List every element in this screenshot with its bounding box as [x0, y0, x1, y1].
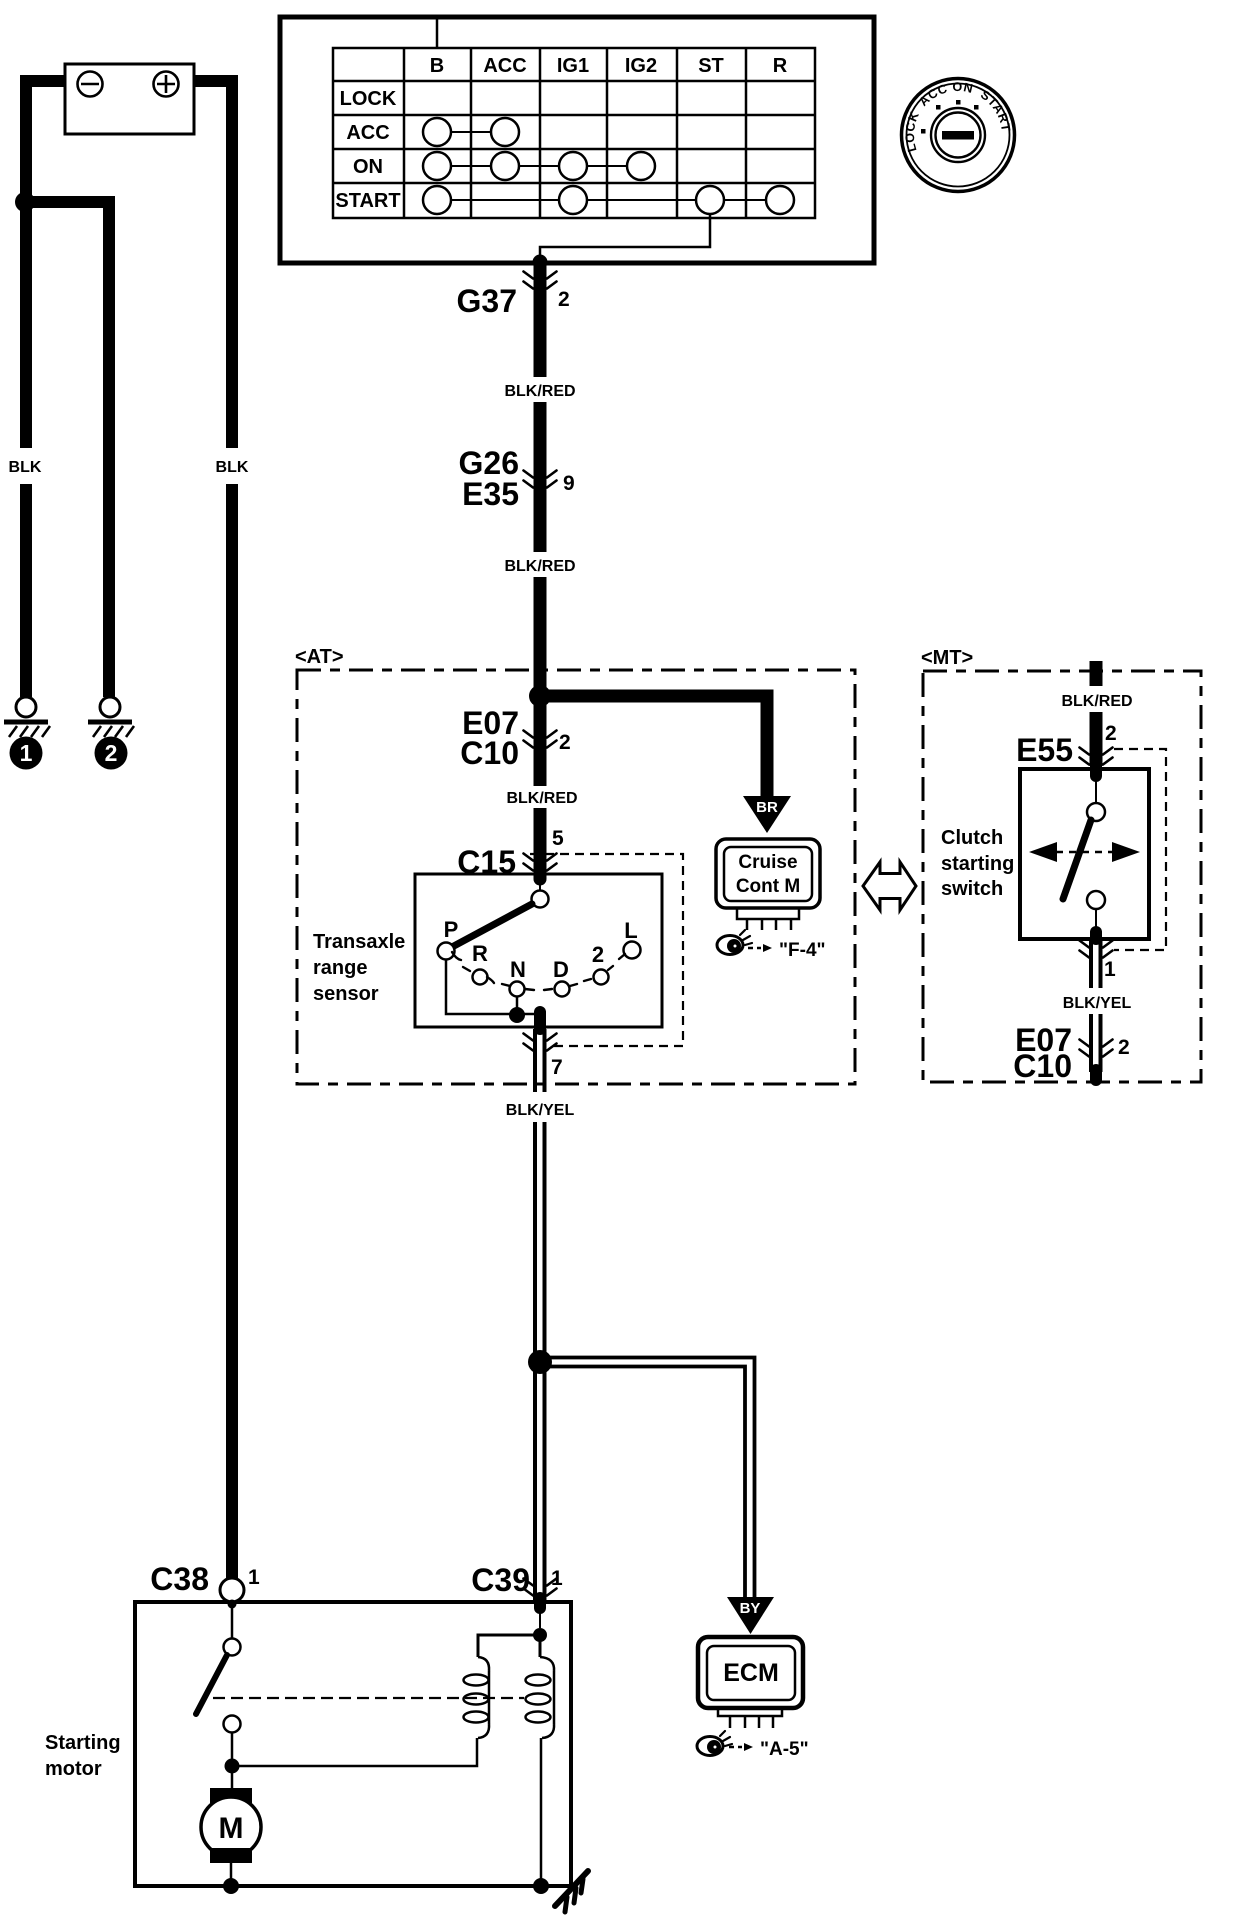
svg-text:"A-5": "A-5": [760, 1739, 809, 1760]
branch double wire to ECM: [542, 1358, 755, 1598]
svg-text:D: D: [553, 957, 569, 982]
ECM box: [698, 1637, 803, 1708]
ECM pins: [730, 1716, 773, 1728]
svg-text:2: 2: [559, 731, 571, 754]
hold coil lead to ground rail: [540, 1738, 543, 1884]
link to coil return: [232, 1738, 477, 1766]
contact D: [555, 982, 570, 997]
feed line into table: [436, 19, 439, 48]
wire from N to common node: [516, 997, 519, 1014]
MT feed wire: [1090, 661, 1103, 686]
ground 2 numeral: [95, 737, 128, 770]
connector C39: [524, 1579, 557, 1596]
svg-text:2: 2: [558, 288, 570, 311]
AT dashed box: [297, 670, 855, 1084]
svg-text:L: L: [624, 918, 637, 943]
C38 contact dot: [228, 1600, 237, 1609]
transaxle range sensor box: [415, 874, 662, 1027]
wire ignition output segment 1: [534, 262, 547, 377]
contact 2: [594, 970, 609, 985]
svg-text:BLK/RED: BLK/RED: [504, 383, 575, 400]
svg-text:P: P: [444, 917, 459, 942]
svg-text:R: R: [472, 941, 488, 966]
svg-text:Clutch: Clutch: [941, 827, 1003, 849]
upper contact: [1087, 803, 1105, 821]
branch wire to cruise control: [540, 696, 767, 797]
svg-text:BR: BR: [756, 799, 778, 816]
contact N: [510, 982, 525, 997]
label transaxle range sensor: [313, 931, 405, 1005]
motor M: [201, 1788, 261, 1863]
svg-text:Cruise: Cruise: [738, 852, 797, 873]
svg-text:5: 5: [552, 827, 564, 850]
wire segment 2: [534, 402, 547, 552]
relay switch blade: [196, 1655, 227, 1714]
junction dot above motor: [225, 1759, 240, 1774]
svg-text:<MT>: <MT>: [921, 647, 973, 669]
junction dot sensor output: [509, 1007, 525, 1023]
wire segment 4: [534, 808, 547, 874]
svg-text:ACC: ACC: [483, 55, 526, 77]
table row headers: [335, 88, 400, 212]
svg-text:BLK: BLK: [216, 459, 249, 476]
wire battery negative to ground 1: [26, 81, 66, 448]
contact L: [624, 942, 641, 959]
wire tip at sensor: [534, 872, 547, 877]
svg-text:2: 2: [592, 942, 604, 967]
svg-text:Transaxle: Transaxle: [313, 931, 405, 953]
contact R: [473, 970, 488, 985]
junction dot on main wire: [529, 685, 551, 707]
svg-text:ECM: ECM: [723, 1659, 779, 1687]
clutch starting switch box: [1020, 769, 1149, 939]
wire bulge at ignition box exit: [533, 255, 548, 270]
wire tip out of switch: [1090, 932, 1102, 939]
svg-text:E35: E35: [462, 476, 519, 512]
junction dot to ECM branch: [528, 1350, 552, 1374]
contact P: [438, 943, 455, 960]
ignition switch box: [280, 17, 874, 263]
coil junction dot: [533, 1628, 547, 1642]
pull-in coil: [464, 1657, 490, 1738]
svg-text:N: N: [510, 957, 526, 982]
lead from lower contact: [231, 1733, 234, 1766]
connector E07/C10 (MT): [1080, 1040, 1113, 1057]
cruise reference dashed arrow: [748, 947, 761, 950]
svg-text:2: 2: [105, 740, 118, 766]
svg-text:2: 2: [1105, 722, 1117, 745]
starting motor box: [135, 1602, 571, 1886]
ground 1 numeral: [10, 737, 43, 770]
junction dot bottom left: [223, 1878, 239, 1894]
svg-text:G37: G37: [457, 283, 517, 319]
label starting motor: [45, 1732, 121, 1780]
ground 1: [4, 697, 50, 737]
label clutch starting switch: [941, 827, 1014, 900]
ground 2: [88, 697, 134, 737]
svg-text:sensor: sensor: [313, 983, 379, 1005]
connector G26/E35: [524, 471, 557, 488]
C39 wire tip into box: [534, 1598, 546, 1608]
lead motor to ground rail: [230, 1863, 233, 1884]
svg-text:Cont M: Cont M: [736, 876, 800, 897]
MT wire segment 2: [1090, 712, 1103, 766]
MT lower double wire lower part: [1091, 1014, 1101, 1072]
svg-text:1: 1: [248, 1566, 260, 1589]
ECM reference dashed arrow: [729, 1746, 742, 1749]
table contact circles START row: [423, 186, 794, 214]
table contact circles ACC row: [423, 118, 519, 146]
connector 7 marks: [524, 1034, 557, 1051]
cruise control module: [716, 839, 820, 908]
battery: [65, 64, 194, 134]
svg-text:C39: C39: [471, 1562, 530, 1598]
svg-text:LOCK: LOCK: [340, 88, 397, 110]
BR arrow: [743, 796, 791, 833]
lead to upper contact: [1095, 776, 1097, 804]
wire from P to common node: [446, 960, 515, 1014]
svg-text:starting: starting: [941, 853, 1014, 875]
svg-text:<AT>: <AT>: [295, 646, 344, 668]
AT/MT equivalence arrow: [863, 862, 916, 910]
cruise reference eye icon: [717, 930, 752, 955]
table links ON row: [451, 165, 627, 167]
lead to hold coil: [539, 1635, 542, 1657]
lead to relay switch: [231, 1604, 234, 1639]
ECM reference eye icon: [697, 1731, 732, 1756]
connector 1 marks: [1080, 941, 1113, 958]
lead to coil junction: [539, 1608, 541, 1628]
svg-text:"F-4": "F-4": [779, 940, 826, 961]
line from ST contact to output: [540, 214, 710, 262]
svg-text:C10: C10: [1013, 1048, 1072, 1084]
cruise pins: [747, 919, 791, 930]
svg-text:C10: C10: [460, 735, 519, 771]
BLK/YEL double wire upper: [535, 1029, 545, 1092]
svg-text:ACC: ACC: [346, 122, 389, 144]
wire stub into sensor: [534, 874, 547, 879]
relay switch lower contact: [224, 1716, 241, 1733]
ignition switch table grid: [333, 48, 815, 218]
E55 dashed connector outline: [1114, 749, 1166, 950]
svg-text:START: START: [335, 190, 400, 212]
lead to common contact: [539, 877, 541, 891]
svg-text:1: 1: [20, 740, 33, 766]
link to pull-in coil: [478, 1635, 540, 1657]
ECM connector bar: [718, 1708, 782, 1716]
BLK/YEL double wire lower: [535, 1122, 545, 1600]
lower contact: [1087, 891, 1105, 909]
svg-text:BY: BY: [740, 1600, 761, 1617]
travel arrow right: [1112, 842, 1140, 862]
relay dashed link line: [213, 1697, 524, 1699]
svg-text:B: B: [430, 55, 444, 77]
sensor output stub: [534, 1012, 546, 1029]
table column headers: [430, 55, 788, 77]
connector E07/C10: [524, 731, 557, 748]
wire segment 3: [534, 577, 547, 786]
lead from lower contact: [1095, 909, 1097, 936]
svg-text:9: 9: [563, 472, 575, 495]
svg-text:switch: switch: [941, 878, 1003, 900]
C15 dashed connector outline: [530, 854, 683, 1046]
table links START row: [451, 199, 766, 201]
svg-text:1: 1: [551, 1567, 563, 1590]
wire tip into switch: [1090, 766, 1102, 776]
chassis ground bottom right: [555, 1871, 588, 1912]
table contact circles ON row: [423, 152, 655, 180]
svg-text:E55: E55: [1016, 732, 1073, 768]
junction: [15, 192, 35, 212]
wire battery positive (BLK): [193, 81, 232, 448]
svg-text:range: range: [313, 957, 367, 979]
connector G37: [524, 272, 557, 289]
wire branch to ground 2: [25, 202, 109, 697]
hold coil: [526, 1657, 555, 1738]
BY arrow: [727, 1597, 774, 1634]
wire from node to output: [517, 1013, 541, 1016]
svg-text:IG1: IG1: [557, 55, 589, 77]
svg-text:C38: C38: [150, 1561, 209, 1597]
svg-text:BLK/RED: BLK/RED: [504, 558, 575, 575]
dashed travel line: [1056, 851, 1112, 854]
junction dot bottom right: [533, 1878, 549, 1894]
svg-text:motor: motor: [45, 1758, 102, 1780]
svg-text:M: M: [219, 1812, 244, 1845]
svg-text:1: 1: [1104, 958, 1116, 981]
svg-text:ST: ST: [698, 55, 724, 77]
MT lower double wire upper part: [1091, 939, 1101, 988]
svg-text:7: 7: [551, 1056, 563, 1079]
connector E55: [1080, 748, 1113, 765]
lead to motor: [231, 1766, 234, 1790]
svg-text:Starting: Starting: [45, 1732, 121, 1754]
common contact: [532, 891, 549, 908]
svg-text:BLK/RED: BLK/RED: [1061, 693, 1132, 710]
relay switch upper contact: [224, 1639, 241, 1656]
svg-text:BLK/RED: BLK/RED: [506, 790, 577, 807]
svg-text:BLK/YEL: BLK/YEL: [506, 1102, 575, 1119]
table link ACC row: [451, 131, 491, 133]
svg-text:R: R: [773, 55, 788, 77]
cruise connector bar: [737, 908, 799, 919]
ignition key symbol: [902, 79, 1015, 192]
svg-text:BLK: BLK: [9, 459, 42, 476]
switch blade (MT): [1063, 820, 1091, 899]
C38 connector circle: [220, 1578, 244, 1602]
svg-text:2: 2: [1118, 1036, 1130, 1059]
MT wire end tip: [1090, 1070, 1102, 1080]
switch blade: [452, 904, 532, 947]
travel arrow left: [1029, 842, 1057, 862]
connector C15: [524, 854, 557, 871]
MT dashed box: [923, 671, 1201, 1082]
arc ticks: [452, 952, 625, 990]
svg-text:BLK/YEL: BLK/YEL: [1063, 995, 1132, 1012]
svg-text:ON: ON: [353, 156, 383, 178]
svg-text:IG2: IG2: [625, 55, 657, 77]
